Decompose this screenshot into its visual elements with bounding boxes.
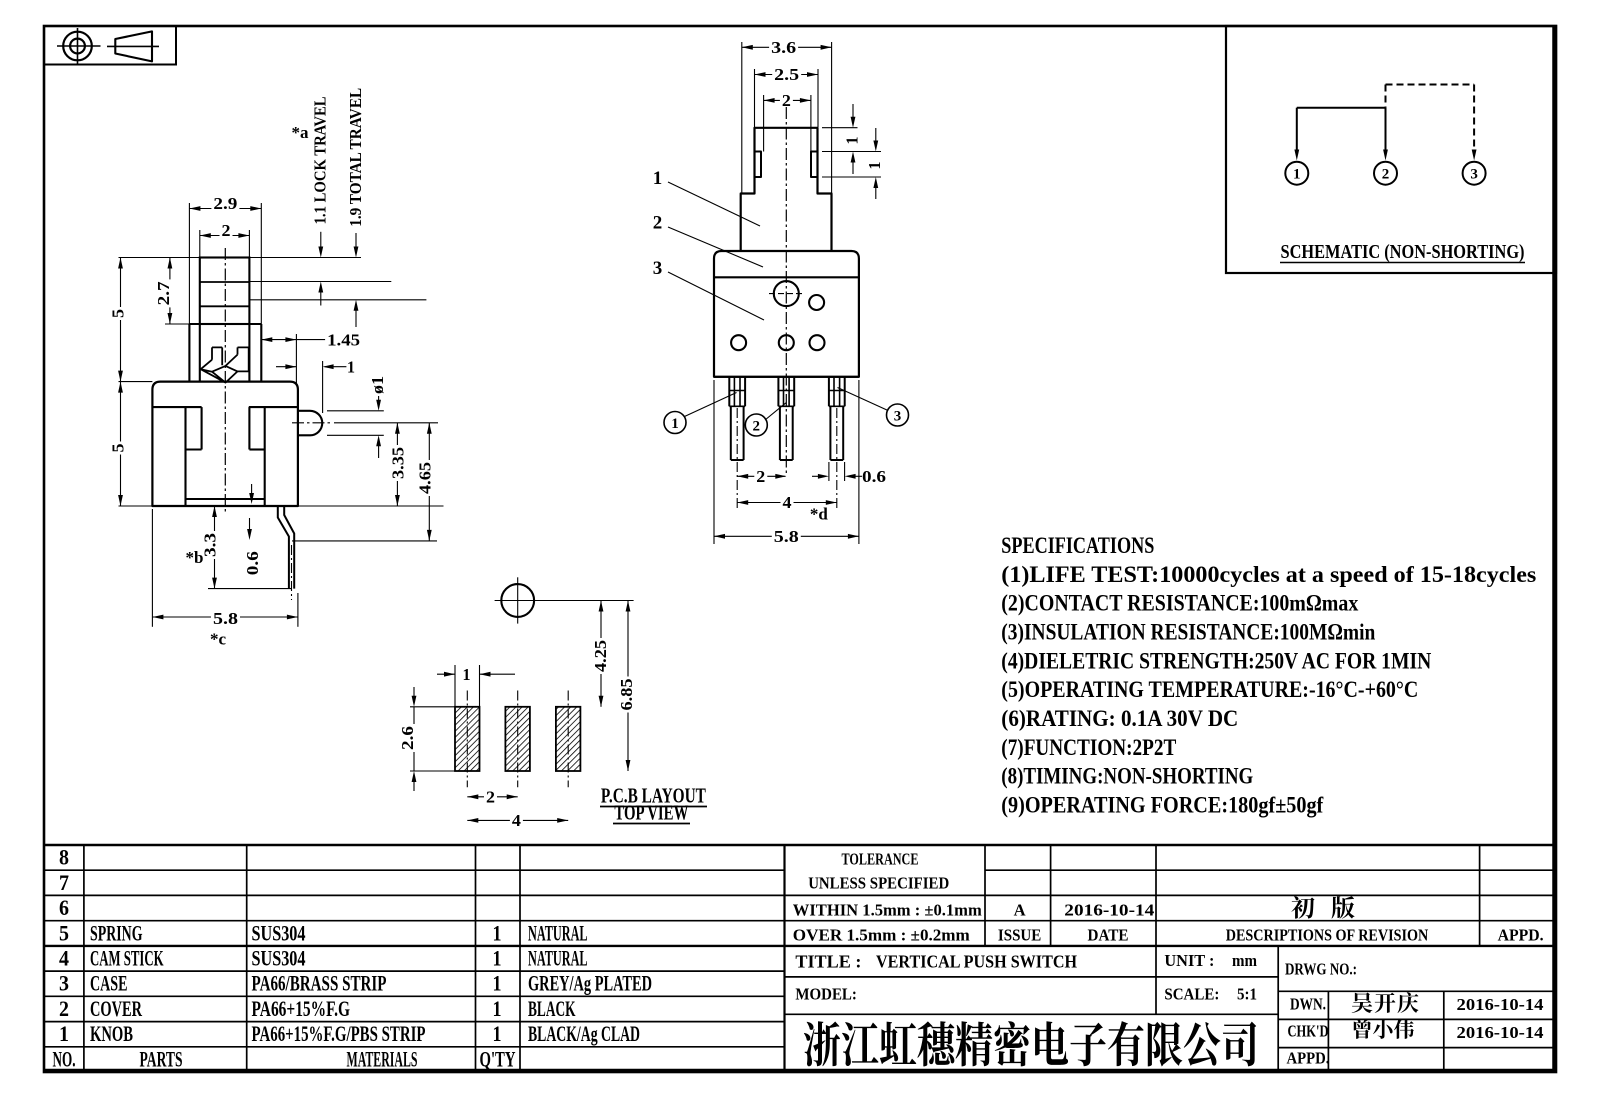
svg-text:APPD.: APPD. bbox=[1498, 926, 1544, 945]
svg-text:SPRING: SPRING bbox=[90, 920, 143, 945]
svg-text:PA66/BRASS STRIP: PA66/BRASS STRIP bbox=[252, 971, 387, 996]
svg-text:SCHEMATIC (NON-SHORTING): SCHEMATIC (NON-SHORTING) bbox=[1281, 241, 1525, 263]
svg-text:0.6: 0.6 bbox=[243, 551, 262, 575]
dim 2 (knob) bbox=[199, 230, 201, 257]
svg-text:3.35: 3.35 bbox=[388, 447, 407, 479]
dim *a lock/total travel arrows bbox=[320, 232, 322, 249]
svg-text:6: 6 bbox=[59, 895, 69, 920]
svg-text:(9)OPERATING FORCE:180gf±50gf: (9)OPERATING FORCE:180gf±50gf bbox=[1001, 792, 1323, 817]
svg-text:PA66+15%F.G: PA66+15%F.G bbox=[252, 996, 351, 1021]
svg-text:GREY/Ag PLATED: GREY/Ag PLATED bbox=[528, 971, 652, 996]
pin 3 balloon bbox=[887, 404, 909, 426]
dim 0.6 (lug) bbox=[249, 518, 251, 532]
pad centerline x=517.7 bbox=[517, 691, 519, 788]
pad centerline x=568.2 bbox=[567, 691, 569, 788]
svg-text:2: 2 bbox=[653, 213, 663, 234]
svg-text:5.8: 5.8 bbox=[774, 527, 799, 546]
svg-text:*c: *c bbox=[210, 630, 227, 649]
svg-text:WITHIN 1.5mm : ±0.1mm: WITHIN 1.5mm : ±0.1mm bbox=[793, 901, 982, 920]
schematic dashed wire pin2-pin3 (thrown position) bbox=[1385, 85, 1387, 108]
svg-text:1: 1 bbox=[493, 920, 502, 945]
schematic wire: common bar pin1-pin2 bbox=[1297, 107, 1386, 109]
svg-text:2.7: 2.7 bbox=[154, 281, 173, 306]
svg-text:5.8: 5.8 bbox=[213, 609, 238, 628]
travel extension lines bbox=[250, 281, 391, 283]
pcb pads (hatched) bbox=[455, 707, 480, 771]
svg-text:Q'TY: Q'TY bbox=[480, 1047, 516, 1072]
dim 4 (pads) bbox=[467, 819, 568, 821]
title block grid bbox=[44, 844, 1556, 846]
svg-text:(5)OPERATING TEMPERATURE:-16°C: (5)OPERATING TEMPERATURE:-16°C-+60°C bbox=[1001, 677, 1418, 702]
svg-text:4.25: 4.25 bbox=[591, 640, 610, 672]
svg-text:(3)INSULATION RESISTANCE:100MΩ: (3)INSULATION RESISTANCE:100MΩmin bbox=[1001, 619, 1375, 644]
svg-text:1: 1 bbox=[843, 137, 862, 145]
svg-text:*b: *b bbox=[186, 548, 204, 567]
svg-text:1: 1 bbox=[59, 1021, 69, 1046]
svg-text:1: 1 bbox=[493, 946, 502, 971]
svg-text:1: 1 bbox=[493, 996, 502, 1021]
left extension lines bbox=[119, 381, 153, 383]
dim 1 #1 bbox=[852, 104, 854, 119]
front view: case/cover bbox=[714, 251, 859, 377]
right extension lines (travel) bbox=[822, 127, 858, 129]
svg-text:4: 4 bbox=[512, 811, 522, 830]
svg-text:NO.: NO. bbox=[53, 1047, 76, 1072]
svg-text:SPECIFICATIONS: SPECIFICATIONS bbox=[1001, 533, 1154, 558]
dim 5.8 (side) bbox=[151, 509, 153, 627]
svg-text:MODEL:: MODEL: bbox=[795, 985, 857, 1004]
svg-text:4: 4 bbox=[59, 946, 69, 971]
dim 3.6 bbox=[741, 42, 743, 193]
svg-text:DATE: DATE bbox=[1088, 926, 1129, 945]
svg-text:2: 2 bbox=[486, 787, 495, 806]
svg-text:A: A bbox=[1014, 901, 1026, 920]
svg-text:*a: *a bbox=[292, 123, 310, 142]
svg-text:8: 8 bbox=[59, 845, 69, 870]
terminal pin at x=836.8 bbox=[828, 377, 830, 407]
svg-text:1: 1 bbox=[653, 168, 663, 189]
svg-text:2: 2 bbox=[222, 221, 231, 240]
side view centerline bbox=[224, 248, 226, 512]
svg-text:1: 1 bbox=[463, 665, 471, 684]
pad centerline x=467.3 bbox=[466, 691, 468, 788]
dim 3.3 bbox=[214, 506, 216, 589]
svg-text:5: 5 bbox=[109, 444, 128, 453]
svg-text:7: 7 bbox=[59, 870, 69, 895]
svg-text:UNLESS SPECIFIED: UNLESS SPECIFIED bbox=[808, 874, 949, 893]
knob groove slots bbox=[755, 152, 818, 178]
svg-text:1: 1 bbox=[865, 162, 884, 170]
svg-text:0.6: 0.6 bbox=[862, 467, 886, 486]
svg-text:2016-10-14: 2016-10-14 bbox=[1064, 901, 1154, 920]
schematic wire arrow to pin1 bbox=[1296, 108, 1298, 152]
projection symbol: truncated cone bbox=[115, 31, 152, 61]
svg-text:(6)RATING: 0.1A 30V DC: (6)RATING: 0.1A 30V DC bbox=[1001, 706, 1238, 731]
svg-text:2.5: 2.5 bbox=[774, 65, 799, 84]
svg-text:DRWG NO.:: DRWG NO.: bbox=[1285, 960, 1357, 979]
svg-text:(2)CONTACT RESISTANCE:100mΩmax: (2)CONTACT RESISTANCE:100mΩmax bbox=[1001, 591, 1358, 616]
dim 4.25 bbox=[600, 601, 602, 707]
svg-text:1.1 LOCK TRAVEL: 1.1 LOCK TRAVEL bbox=[311, 96, 330, 224]
svg-text:2: 2 bbox=[59, 996, 69, 1021]
small arrow inside case bottom bbox=[251, 484, 253, 497]
capsule centerline + right extension bbox=[292, 422, 331, 424]
svg-text:4.65: 4.65 bbox=[415, 462, 434, 494]
svg-text:1.45: 1.45 bbox=[327, 330, 360, 349]
svg-text:3: 3 bbox=[59, 971, 69, 996]
svg-text:3: 3 bbox=[1470, 167, 1478, 183]
svg-text:BLACK: BLACK bbox=[528, 996, 576, 1021]
svg-text:VERTICAL PUSH SWITCH: VERTICAL PUSH SWITCH bbox=[876, 952, 1077, 972]
svg-text:5: 5 bbox=[59, 920, 69, 945]
svg-text:2016-10-14: 2016-10-14 bbox=[1457, 1023, 1544, 1042]
svg-text:(4)DIELETRIC STRENGTH:250V AC: (4)DIELETRIC STRENGTH:250V AC FOR 1MIN bbox=[1001, 648, 1431, 673]
dim 4 (pins) bbox=[737, 502, 837, 504]
cam stick mechanism inside sleeve bbox=[201, 347, 223, 369]
svg-text:UNIT :: UNIT : bbox=[1164, 951, 1214, 970]
svg-text:CASE: CASE bbox=[90, 971, 128, 996]
svg-text:2: 2 bbox=[753, 419, 761, 435]
svg-text:4: 4 bbox=[783, 493, 793, 512]
side view: knob (part 1) bbox=[200, 258, 250, 325]
svg-text:COVER: COVER bbox=[90, 996, 143, 1021]
schematic wire arrow to pin2 bbox=[1385, 108, 1387, 152]
schematic pin 1 terminal bbox=[1285, 162, 1308, 185]
svg-text:5: 5 bbox=[109, 309, 128, 318]
svg-text:1: 1 bbox=[493, 1021, 502, 1046]
dim 5 lower bbox=[120, 382, 122, 506]
dim 1 (pad width) bbox=[454, 665, 456, 706]
side view: case (part 3) bbox=[152, 382, 298, 506]
svg-text:1.9 TOTAL TRAVEL: 1.9 TOTAL TRAVEL bbox=[346, 88, 365, 227]
svg-text:3.6: 3.6 bbox=[771, 38, 796, 57]
pin top/bottom extension lines bbox=[327, 410, 384, 412]
svg-text:2016-10-14: 2016-10-14 bbox=[1457, 995, 1544, 1014]
schematic pin 3 terminal bbox=[1463, 162, 1486, 185]
schematic pin 2 terminal bbox=[1374, 162, 1397, 185]
svg-text:NATURAL: NATURAL bbox=[528, 946, 588, 971]
projection symbol: circle bbox=[63, 32, 92, 61]
svg-text:3: 3 bbox=[894, 409, 902, 425]
dim 1 #2 bbox=[875, 128, 877, 143]
dim 2.7 bbox=[165, 323, 190, 325]
svg-text:3: 3 bbox=[653, 258, 663, 279]
svg-text:CAM STICK: CAM STICK bbox=[90, 946, 164, 971]
dim 0.6 (pin width) bbox=[828, 462, 830, 481]
dim 2 (pads) bbox=[467, 796, 517, 798]
dim 6.85 bbox=[627, 601, 629, 772]
dim 2 (front knob) bbox=[763, 95, 765, 152]
bent solder lug bbox=[278, 506, 289, 589]
svg-text:1: 1 bbox=[1293, 167, 1301, 183]
svg-text:TITLE :: TITLE : bbox=[795, 952, 861, 972]
svg-text:TOP VIEW: TOP VIEW bbox=[614, 801, 688, 825]
dim 5.8 (front) bbox=[713, 380, 715, 544]
first-angle projection symbol box bbox=[44, 26, 176, 65]
svg-text:1: 1 bbox=[493, 971, 502, 996]
svg-text:PA66+15%F.G/PBS STRIP: PA66+15%F.G/PBS STRIP bbox=[252, 1021, 426, 1046]
svg-text:CHK'D: CHK'D bbox=[1288, 1022, 1329, 1041]
dim o1 arrows bbox=[378, 388, 380, 402]
small holes bbox=[809, 295, 824, 310]
svg-text:2: 2 bbox=[756, 467, 765, 486]
extension line case bottom right bbox=[298, 505, 444, 507]
svg-text:DESCRIPTIONS OF REVISION: DESCRIPTIONS OF REVISION bbox=[1226, 926, 1429, 945]
side pushbutton pin (capsule) bbox=[298, 410, 310, 412]
dim 3.35 bbox=[396, 423, 398, 506]
side view: knob top extension line bbox=[119, 257, 362, 259]
dim 1.45 bbox=[295, 334, 297, 385]
svg-text:1: 1 bbox=[347, 357, 355, 376]
dim 5 upper bbox=[120, 258, 122, 382]
pcb mounting hole bbox=[501, 584, 534, 617]
svg-text:(8)TIMING:NON-SHORTING: (8)TIMING:NON-SHORTING bbox=[1001, 764, 1253, 789]
schematic box bbox=[1226, 26, 1556, 273]
dim 2 (pins) bbox=[737, 475, 785, 477]
case interior lines bbox=[152, 406, 201, 408]
svg-text:(1)LIFE TEST:10000cycles at a: (1)LIFE TEST:10000cycles at a speed of 1… bbox=[1001, 562, 1536, 587]
pin 1 balloon bbox=[664, 412, 686, 434]
svg-text:SUS304: SUS304 bbox=[252, 920, 306, 945]
svg-text:mm: mm bbox=[1232, 951, 1257, 970]
svg-text:BLACK/Ag CLAD: BLACK/Ag CLAD bbox=[528, 1021, 640, 1046]
svg-text:APPD.: APPD. bbox=[1287, 1049, 1330, 1068]
dim 4.65 bbox=[428, 423, 430, 541]
side view: guide sleeve (part 2) bbox=[189, 323, 261, 325]
svg-text:MATERIALS: MATERIALS bbox=[347, 1047, 418, 1072]
front view: knob outline bbox=[741, 128, 832, 251]
svg-text:1: 1 bbox=[671, 416, 679, 432]
revision A chinese 初版 bbox=[1291, 896, 1314, 919]
drafter names bbox=[1352, 992, 1373, 1013]
svg-text:ø1: ø1 bbox=[368, 376, 387, 394]
dim 2.5 bbox=[754, 69, 756, 127]
svg-text:DWN.: DWN. bbox=[1290, 995, 1326, 1014]
center hole bbox=[774, 281, 799, 306]
dim 2.9 bbox=[188, 203, 190, 324]
svg-text:NATURAL: NATURAL bbox=[528, 920, 588, 945]
svg-text:2: 2 bbox=[1382, 167, 1390, 183]
company name bbox=[804, 1021, 840, 1066]
svg-text:PARTS: PARTS bbox=[140, 1047, 183, 1072]
svg-text:(7)FUNCTION:2P2T: (7)FUNCTION:2P2T bbox=[1001, 735, 1176, 760]
dim 1 (side pin) bbox=[322, 361, 324, 413]
svg-text:*d: *d bbox=[810, 505, 829, 524]
svg-text:5:1: 5:1 bbox=[1237, 985, 1257, 1004]
svg-text:KNOB: KNOB bbox=[90, 1021, 133, 1046]
svg-text:6.85: 6.85 bbox=[617, 679, 636, 711]
svg-text:TOLERANCE: TOLERANCE bbox=[842, 850, 919, 869]
svg-text:2.9: 2.9 bbox=[213, 194, 237, 213]
dim 2.6 bbox=[410, 706, 457, 708]
svg-text:ISSUE: ISSUE bbox=[998, 926, 1042, 945]
svg-text:OVER 1.5mm : ±0.2mm: OVER 1.5mm : ±0.2mm bbox=[793, 926, 970, 945]
svg-text:2.6: 2.6 bbox=[398, 726, 417, 750]
pin 2 balloon bbox=[745, 414, 767, 436]
svg-text:SCALE:: SCALE: bbox=[1164, 985, 1219, 1004]
terminal pin at x=786.3 bbox=[777, 377, 779, 407]
svg-text:SUS304: SUS304 bbox=[252, 946, 306, 971]
terminal pin at x=737.2 bbox=[728, 377, 730, 407]
front view centerline bbox=[785, 107, 787, 475]
